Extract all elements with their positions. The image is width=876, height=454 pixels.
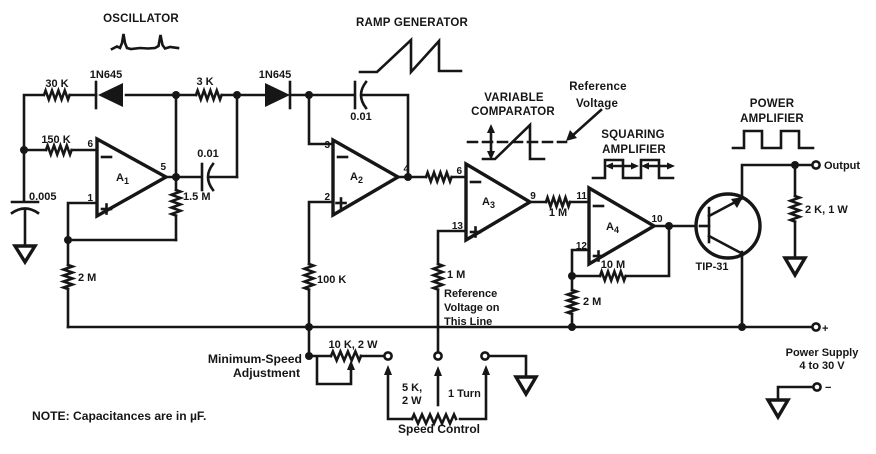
diode D1 1N645: [90, 69, 123, 108]
wire C2 to A2 output corner: [363, 95, 408, 177]
node output junction: [791, 161, 799, 169]
resistor R5 1.5M: [172, 177, 211, 240]
svg-text:2 K, 1 W: 2 K, 1 W: [805, 204, 848, 216]
node plus-loop junction: [64, 236, 72, 244]
wire loop to 1.5M bottom: [68, 239, 176, 242]
Minimum-Speed Adjustment label: [208, 352, 302, 380]
potentiometer R13 10K 2W min speed: [309, 339, 384, 384]
Output terminal: [812, 160, 860, 172]
wire emitter down to bus: [741, 252, 744, 327]
oscillator waveform icon: [112, 34, 178, 49]
wire ground terminal to ground: [489, 356, 526, 377]
svg-text:9: 9: [530, 191, 536, 202]
node A4 feedback junction: [568, 272, 576, 280]
svg-text:1N645: 1N645: [259, 69, 291, 81]
svg-text:0.005: 0.005: [29, 191, 57, 203]
svg-text:4 to 30 V: 4 to 30 V: [799, 360, 845, 372]
Power Supply label: [786, 347, 860, 372]
wire bottom supply bus: [68, 326, 812, 329]
ground-side terminal circle: [481, 352, 488, 359]
resistor R3 150K: [24, 134, 97, 155]
svg-text:Power Supply: Power Supply: [786, 347, 860, 359]
svg-text:Voltage on: Voltage on: [444, 302, 500, 314]
svg-text:Voltage: Voltage: [576, 98, 618, 110]
svg-text:Speed Control: Speed Control: [398, 422, 480, 436]
svg-text:Adjustment: Adjustment: [233, 366, 300, 380]
ground G4: [768, 400, 788, 417]
svg-text:+: +: [822, 323, 828, 335]
resistor R7 between A2 and A3: [398, 173, 466, 182]
Reference Voltage on This Line label: [444, 288, 500, 328]
pot right terminal circle: [384, 352, 391, 359]
node cap-junction on top rail: [233, 91, 241, 99]
svg-text:Minimum-Speed: Minimum-Speed: [208, 352, 302, 366]
svg-text:100 K: 100 K: [317, 274, 346, 286]
svg-text:Reference: Reference: [444, 288, 497, 300]
node A1-output junction on top rail: [172, 91, 180, 99]
capacitor C1 0.005: [12, 191, 57, 246]
svg-text:0.01: 0.01: [350, 111, 371, 123]
comparator waveform icon: [468, 124, 566, 160]
node A2 output: [404, 173, 412, 181]
resistor R9 1M between A3 and A4: [530, 198, 589, 220]
wire A4 output to base: [654, 225, 700, 228]
diode D2 1N645: [259, 69, 291, 108]
svg-text:VARIABLE: VARIABLE: [484, 92, 544, 104]
wire 3K to D2: [222, 94, 264, 97]
svg-text:AMPLIFIER: AMPLIFIER: [740, 113, 804, 125]
op-amp U3 A3: [452, 164, 536, 240]
wire D2 to C2: [290, 94, 353, 97]
wire A3 plus input down: [438, 231, 466, 264]
resistor R11 2M: [568, 276, 602, 327]
resistor R10 10M feedback: [572, 226, 669, 281]
svg-text:2 W: 2 W: [402, 395, 422, 407]
ground G1: [15, 246, 35, 262]
node bus emitter junction: [738, 323, 746, 331]
svg-text:2 M: 2 M: [583, 296, 601, 308]
node pot left terminal: [305, 352, 313, 360]
svg-text:1 Turn: 1 Turn: [448, 388, 481, 400]
svg-text:0.01: 0.01: [197, 148, 218, 160]
svg-text:TIP-31: TIP-31: [695, 261, 728, 273]
ground G2: [785, 258, 805, 275]
minus supply terminal: [813, 382, 831, 394]
wire 30K to D1: [70, 94, 96, 97]
wire C3 up to top rail: [236, 95, 239, 177]
node A2 input junction: [305, 91, 313, 99]
svg-text:6: 6: [87, 139, 93, 150]
resistor R8 1M reference: [434, 264, 466, 352]
wire collector up to output line: [742, 165, 812, 196]
wire D1 to 3K: [126, 94, 196, 97]
svg-text:OSCILLATOR: OSCILLATOR: [103, 13, 179, 25]
node bus 100K junction: [305, 323, 313, 331]
resistor R2 3K: [196, 91, 222, 100]
svg-text:5: 5: [160, 162, 166, 173]
resistor R4 2M: [64, 240, 97, 327]
wire left rail junction: [20, 146, 28, 154]
svg-text:3 K: 3 K: [196, 76, 213, 88]
potentiometer R14 5K 2W speed control: [384, 365, 490, 424]
svg-text:COMPARATOR: COMPARATOR: [471, 106, 555, 118]
capacitor C3 0.01: [166, 148, 237, 190]
wire bus down to min-speed pot: [308, 327, 311, 356]
op-amp U1 A1: [87, 139, 166, 216]
node A4 output: [665, 222, 673, 230]
svg-text:POWER: POWER: [750, 98, 795, 110]
wire A2 minus input from top rail: [309, 95, 333, 144]
svg-text:150 K: 150 K: [41, 134, 70, 146]
svg-text:1 M: 1 M: [549, 207, 567, 219]
svg-text:−: −: [825, 382, 831, 394]
svg-text:10 M: 10 M: [601, 259, 625, 271]
wire A2 plus input down: [309, 202, 333, 264]
ramp waveform icon: [360, 40, 461, 72]
svg-text:1.5 M: 1.5 M: [183, 191, 211, 203]
resistor R12 2K 1W: [791, 165, 849, 258]
svg-text:10 K, 2 W: 10 K, 2 W: [329, 339, 379, 351]
svg-text:1 M: 1 M: [447, 269, 465, 281]
op-amp U2 A2: [324, 140, 409, 215]
op-amp U4 A4: [576, 188, 663, 264]
squaring amplifier waveform icon: [593, 160, 675, 178]
reference voltage pointer arrow: [566, 110, 601, 141]
plus supply terminal: [812, 323, 828, 335]
svg-text:NOTE: Capacitances are in µF.: NOTE: Capacitances are in µF.: [32, 409, 206, 423]
capacitor C2 0.01 ramp feedback: [350, 82, 371, 123]
power amplifier waveform icon: [733, 131, 813, 148]
ground G3: [516, 377, 536, 394]
svg-text:1N645: 1N645: [90, 69, 122, 81]
node A1 output: [172, 173, 180, 181]
svg-text:Output: Output: [824, 160, 860, 172]
5K 2W label: [402, 382, 422, 407]
svg-text:5 K,: 5 K,: [402, 382, 422, 394]
svg-text:10: 10: [651, 214, 663, 225]
svg-text:11: 11: [576, 191, 587, 202]
resistor R1 30K: [44, 91, 70, 100]
svg-text:RAMP GENERATOR: RAMP GENERATOR: [356, 17, 469, 29]
transistor Q1 TIP-31: [695, 194, 760, 273]
svg-text:SQUARING: SQUARING: [601, 129, 665, 141]
svg-text:2 M: 2 M: [78, 272, 96, 284]
reference line terminal circle: [434, 352, 441, 359]
svg-text:Reference: Reference: [569, 81, 626, 93]
wire A1 output to top rail: [175, 95, 178, 177]
svg-text:AMPLIFIER: AMPLIFIER: [602, 144, 666, 156]
wire top rail left corner to 30K: [24, 95, 43, 200]
resistor R6 100K: [305, 264, 347, 327]
wire A4 plus input down: [572, 250, 589, 276]
wire minus terminal to ground: [778, 387, 813, 400]
svg-text:3: 3: [324, 140, 330, 151]
svg-text:30 K: 30 K: [45, 78, 68, 90]
svg-text:6: 6: [456, 166, 462, 177]
wire A1 plus input loop: [68, 203, 97, 240]
node bus 2M junction: [568, 323, 576, 331]
